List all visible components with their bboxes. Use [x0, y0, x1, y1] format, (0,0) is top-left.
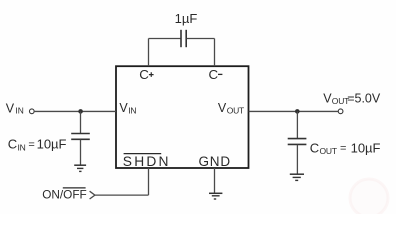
- junction node A: [78, 109, 83, 114]
- wire GND pin down: [214, 168, 216, 193]
- wire VIN to box: [35, 110, 116, 112]
- svg-text:10µF: 10µF: [37, 137, 67, 152]
- node VOUT=5.0V label: [323, 91, 381, 105]
- svg-text:IN: IN: [18, 143, 26, 153]
- watermark circle: [350, 179, 388, 217]
- ground (GND pin): [209, 193, 222, 199]
- wire ON/OFF to SHDN corner: [95, 194, 149, 196]
- wire SHDN pin down: [148, 168, 150, 195]
- svg-text:IN: IN: [15, 106, 23, 116]
- wire C+ pin up: [148, 39, 150, 67]
- pin label VOUT (inside): [218, 101, 244, 116]
- svg-text:OUT: OUT: [320, 146, 337, 156]
- svg-text:V: V: [6, 101, 15, 115]
- capacitor COUT (plates): [288, 139, 307, 145]
- terminal circle VOUT: [338, 109, 343, 114]
- svg-text:C: C: [209, 67, 219, 82]
- svg-text:ON/OFF: ON/OFF: [42, 187, 87, 201]
- svg-text:V: V: [119, 101, 128, 115]
- svg-text:IN: IN: [128, 106, 136, 116]
- capacitor CIN (plates): [71, 134, 90, 140]
- ground (COUT): [290, 174, 304, 180]
- pin label C-: [209, 67, 223, 82]
- svg-text:V: V: [218, 101, 227, 115]
- svg-text:1µF: 1µF: [175, 11, 198, 26]
- svg-text:SHDN: SHDN: [123, 154, 171, 169]
- wire top cap left: [149, 38, 181, 40]
- pin label SHDN (inside, overline): [123, 154, 171, 169]
- junction node B: [295, 109, 300, 114]
- svg-text:C: C: [8, 137, 17, 152]
- pin label C+: [139, 67, 153, 82]
- ground (CIN): [74, 165, 86, 171]
- svg-text:=5.0V: =5.0V: [347, 91, 381, 105]
- wire VOUT pin to terminal: [249, 110, 338, 112]
- wire top cap right: [187, 38, 215, 40]
- arrow into SHDN wire: [90, 191, 95, 199]
- capacitor C1 1uF (plates): [181, 30, 186, 47]
- pin label VIN (inside): [119, 101, 136, 116]
- svg-text:10µF: 10µF: [351, 140, 381, 155]
- svg-text:C: C: [139, 67, 149, 82]
- svg-text:OUT: OUT: [227, 106, 244, 116]
- terminal circle VIN: [29, 109, 34, 114]
- wire COUT to ground: [296, 145, 298, 174]
- wire C- pin up: [214, 39, 216, 67]
- svg-text:=: =: [28, 139, 34, 151]
- wire node A down to CIN: [80, 111, 82, 133]
- svg-text:C: C: [310, 140, 319, 155]
- wire CIN to ground: [80, 140, 82, 165]
- node ON/OFF label (overline on OFF): [42, 187, 87, 201]
- op IC U1 box: [116, 66, 249, 168]
- wire node B down to COUT: [296, 111, 298, 138]
- svg-text:GND: GND: [199, 154, 231, 169]
- svg-text:=: =: [340, 143, 346, 155]
- value label COUT = 10uF: [310, 140, 381, 156]
- node VIN terminal label: [6, 101, 24, 115]
- value label CIN = 10uF: [8, 137, 67, 153]
